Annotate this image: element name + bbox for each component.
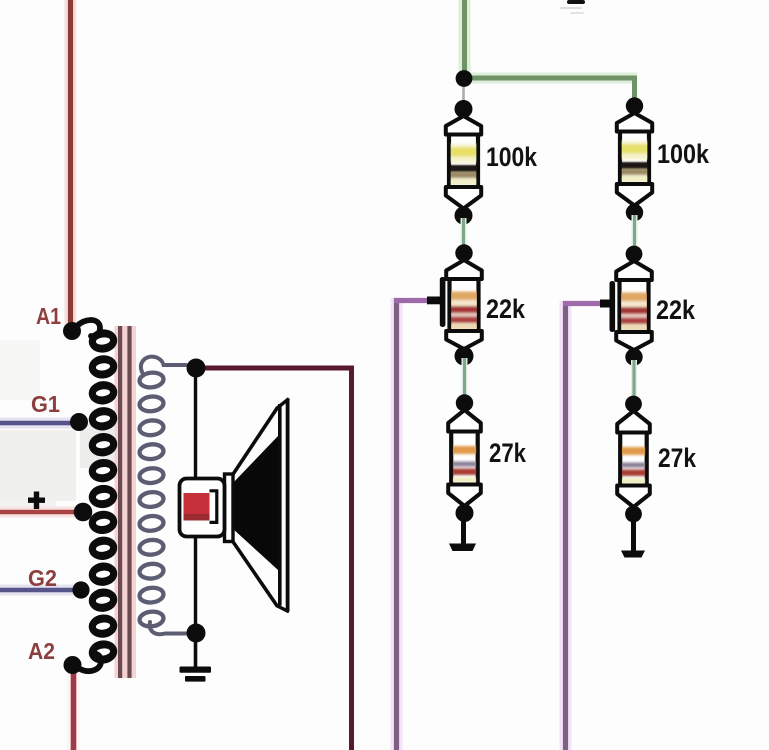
node R2 22k bottom xyxy=(455,347,474,366)
ground left chain xyxy=(449,544,476,552)
node plus xyxy=(74,503,93,522)
node R3 27k top xyxy=(456,394,473,411)
node R5 22k bottom xyxy=(625,348,642,365)
svg-text:27k: 27k xyxy=(658,443,696,473)
wire to ground right chain xyxy=(631,516,636,553)
svg-text:22k: 22k xyxy=(656,295,695,325)
resistor R6 27k xyxy=(617,411,650,507)
wire connector grey xyxy=(462,87,465,101)
node R5 22k top xyxy=(626,246,643,263)
artifact mark top xyxy=(560,0,585,14)
wire teal R5-R6 xyxy=(631,360,637,402)
wire teal R4-R5 xyxy=(632,215,638,251)
svg-text:100k: 100k xyxy=(486,142,537,172)
wire grid drive left (purple) xyxy=(394,298,428,750)
node A1 xyxy=(63,322,81,340)
wire teal R2-R3 xyxy=(462,358,468,401)
svg-text:G1: G1 xyxy=(31,391,60,417)
node R6 27k top xyxy=(625,396,642,413)
wire green horizontal xyxy=(462,78,637,100)
label plus xyxy=(28,492,45,510)
wire output (dark maroon) xyxy=(205,368,352,750)
wire plus xyxy=(0,507,75,518)
resistor R1 100k xyxy=(446,116,481,209)
node R1 100k top xyxy=(455,100,473,118)
wire G2 xyxy=(0,585,74,596)
resistor R3 27k xyxy=(448,410,481,506)
wire A1 feed (red vertical) xyxy=(65,0,77,326)
node R2 22k top xyxy=(455,244,472,261)
wire speaker vertical xyxy=(194,374,197,630)
svg-text:A1: A1 xyxy=(36,303,61,329)
node speaker top xyxy=(187,359,206,378)
transformer T1 core xyxy=(115,326,137,678)
node R4 100k bottom xyxy=(626,204,643,221)
ground right chain xyxy=(621,551,645,558)
node green junction xyxy=(456,70,473,87)
wire A2 (crimson to bottom) xyxy=(67,672,80,750)
wire to ground below speaker xyxy=(194,640,198,668)
svg-text:G2: G2 xyxy=(28,565,57,591)
transformer T1 primary winding xyxy=(76,320,119,671)
node R4 100k top xyxy=(626,97,643,114)
resistor R2 22k xyxy=(446,260,482,349)
node G2 xyxy=(72,581,89,598)
wire grid drive right (purple) xyxy=(563,301,601,750)
node R1 100k bottom xyxy=(455,207,473,225)
wire B+ green vertical xyxy=(459,0,471,76)
wire G1 xyxy=(0,418,73,429)
node speaker bottom xyxy=(187,624,206,643)
node G1 xyxy=(70,413,88,431)
node A2 xyxy=(64,656,82,674)
wire to ground left chain xyxy=(461,515,466,546)
svg-text:100k: 100k xyxy=(657,139,709,169)
ground speaker xyxy=(180,667,212,682)
resistor R4 100k xyxy=(617,113,652,206)
tap stub left xyxy=(427,277,445,327)
node R3 27k bottom xyxy=(456,504,474,522)
svg-text:22k: 22k xyxy=(486,294,525,324)
transformer T1 secondary winding xyxy=(139,357,186,635)
tap stub right xyxy=(600,281,615,332)
resistor R5 22k xyxy=(616,261,652,350)
node R6 27k bottom xyxy=(625,506,642,523)
svg-text:A2: A2 xyxy=(28,638,55,664)
wire teal R1-R2 xyxy=(461,218,467,250)
speaker LS1 xyxy=(180,399,290,612)
svg-text:27k: 27k xyxy=(489,438,526,468)
